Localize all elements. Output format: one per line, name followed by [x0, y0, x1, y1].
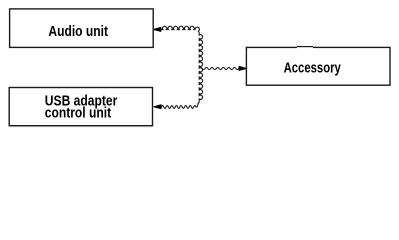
box Accessory [246, 47, 390, 85]
box Audio unit [10, 9, 154, 48]
wire middle squiggle (junction to Accessory) [200, 67, 241, 69]
svg-text:Accessory: Accessory [284, 60, 342, 77]
svg-text:control unit: control unit [45, 105, 111, 122]
arrow into Audio unit [154, 27, 161, 31]
arrow into Accessory [239, 66, 246, 70]
arrow into USB adapter control unit [154, 105, 161, 109]
wire vertical squiggle [198, 33, 203, 104]
svg-text:Audio unit: Audio unit [48, 23, 108, 40]
scan artifact: gray bottom border of USB box [10, 126, 152, 128]
box USB adapter control unit [9, 88, 152, 126]
wire top squiggle (Audio unit to junction) [161, 26, 200, 33]
scan artifact: notch on Accessory top border [297, 47, 313, 49]
wire bottom squiggle (junction to USB adapter control unit) [162, 103, 199, 109]
